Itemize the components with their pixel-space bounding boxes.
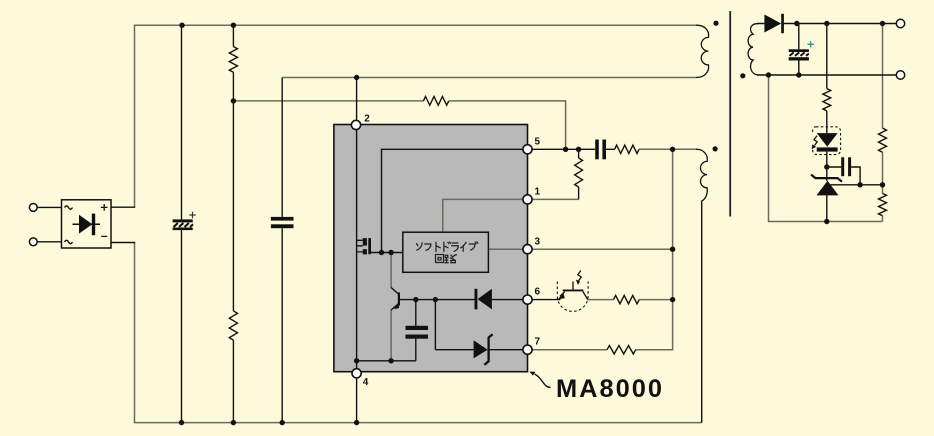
svg-text:1: 1 — [535, 187, 541, 198]
svg-text:3: 3 — [535, 237, 541, 248]
svg-text:2: 2 — [364, 113, 370, 124]
svg-text:4: 4 — [363, 377, 369, 388]
svg-text:MA8000: MA8000 — [556, 375, 664, 403]
svg-text:6: 6 — [535, 287, 541, 298]
svg-text:7: 7 — [535, 337, 541, 348]
svg-text:5: 5 — [535, 137, 541, 148]
